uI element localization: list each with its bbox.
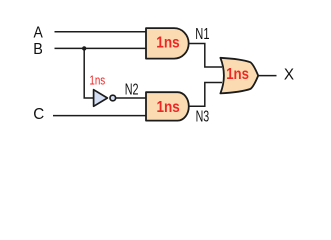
wire N3: AND2 out to OR bottom input [189, 83, 223, 107]
svg-text:C: C [33, 106, 44, 123]
wire B branch to inverter [84, 48, 94, 98]
AND gate U1 [146, 28, 189, 58]
inverter U4 [94, 90, 108, 107]
wire N1: AND1 out to OR top input [189, 44, 223, 68]
inverter bubble [110, 95, 116, 101]
svg-text:A: A [34, 25, 44, 42]
svg-text:1ns: 1ns [156, 34, 179, 51]
junction on B [82, 46, 86, 50]
wire B [55, 47, 148, 49]
svg-text:1ns: 1ns [157, 99, 180, 116]
svg-text:1ns: 1ns [89, 74, 105, 88]
svg-text:N1: N1 [195, 26, 209, 43]
wire OR output [257, 75, 277, 77]
svg-text:N2: N2 [125, 81, 139, 98]
svg-text:B: B [33, 41, 43, 58]
svg-text:1ns: 1ns [226, 66, 249, 83]
svg-text:X: X [284, 67, 295, 84]
svg-text:N3: N3 [196, 109, 210, 126]
wire inverter output to AND2 [115, 97, 147, 99]
wire C [53, 115, 147, 117]
AND gate U2 [146, 92, 189, 120]
OR gate U3 [220, 58, 258, 94]
wire A [55, 31, 148, 33]
